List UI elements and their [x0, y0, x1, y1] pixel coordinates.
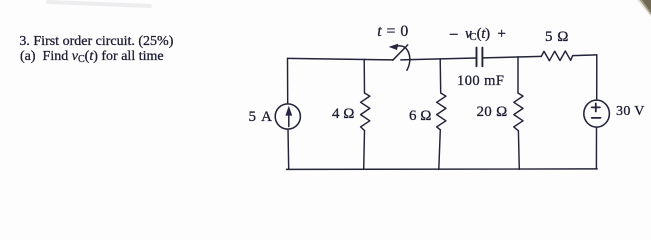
wire: right branch above voltage source — [596, 55, 598, 100]
wire: left branch below current source — [287, 129, 290, 169]
capacitor voltage label - vC(t) + — [450, 27, 506, 42]
current source label 5 A — [249, 110, 274, 125]
switch label t = 0 — [377, 24, 409, 40]
resistor label 6 ohm — [409, 109, 431, 124]
scan artifact: folded page corner top right — [637, 0, 651, 17]
resistor label 5 ohm — [545, 30, 569, 45]
resistor label 20 ohm — [477, 105, 508, 120]
wire: top left segment — [288, 58, 393, 60]
problem statement line 2 — [20, 50, 164, 64]
current source I1 5A — [275, 104, 300, 129]
capacitor value label 100 mF — [457, 74, 504, 89]
wire: top right segment from switch to capacitor — [401, 58, 476, 60]
wire: right branch below voltage source — [595, 127, 597, 169]
resistor R3 20-ohm branch — [514, 57, 523, 169]
resistor R2 6-ohm branch — [437, 59, 446, 169]
scan artifact: faint scanner streak top left — [48, 2, 150, 6]
switch blade — [393, 45, 408, 60]
resistor R1 4-ohm branch — [361, 59, 370, 169]
resistor label 4 ohm — [332, 107, 354, 122]
problem statement line 1 — [19, 35, 173, 49]
wire: left branch above current source — [287, 58, 289, 104]
resistor R4 5-ohm horizontal — [541, 51, 572, 61]
wire: capacitor to 5-ohm resistor — [483, 56, 542, 58]
wire: 5-ohm resistor to top-right corner — [573, 54, 597, 57]
wire: bottom rail — [287, 168, 598, 171]
capacitor C1 100mF plates — [477, 48, 483, 67]
voltage source label 30 V — [616, 105, 645, 119]
switch motion arc with arrowhead — [389, 44, 410, 71]
voltage source V1 30V — [584, 100, 610, 127]
